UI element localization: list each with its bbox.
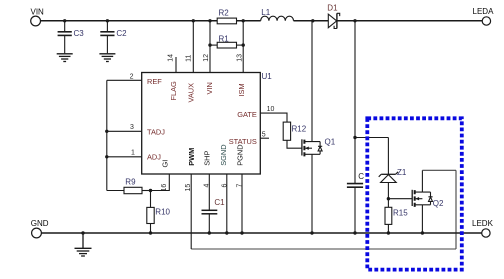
- resistor R15: [385, 199, 392, 233]
- node dot R1 left: [208, 43, 211, 46]
- node dot Q1 source/bus: [310, 231, 313, 234]
- node dot pin7/bus: [240, 231, 243, 234]
- pin 10 GATE wire: [260, 113, 287, 122]
- pin 2 REF stub: [107, 79, 142, 81]
- svg-text:U1: U1: [262, 72, 273, 81]
- wire output node vertical: [354, 21, 356, 184]
- node dot R1 right: [242, 43, 245, 46]
- wire rail segment 4 (D1 to LEDA): [337, 20, 482, 22]
- terminal LEDA: [482, 17, 490, 25]
- svg-text:Q1: Q1: [325, 137, 336, 146]
- transistor Q1 (N-MOSFET): [302, 139, 322, 156]
- pin 5 STATUS stub: [260, 137, 269, 139]
- ground symbol under C2: [99, 54, 115, 62]
- svg-text:SGND: SGND: [219, 144, 228, 165]
- svg-text:R12: R12: [292, 124, 307, 133]
- svg-text:2: 2: [130, 73, 134, 80]
- transistor Q2 (N-MOSFET): [412, 190, 432, 207]
- node dot C3/rail: [63, 19, 66, 22]
- zener Z1: [379, 172, 398, 199]
- wire branch to Z1: [355, 137, 388, 139]
- svg-text:3: 3: [130, 124, 134, 131]
- svg-text:10: 10: [267, 106, 275, 113]
- svg-text:TADJ: TADJ: [147, 127, 165, 136]
- capacitor C1: [202, 174, 218, 233]
- IC U1 body: [142, 73, 261, 175]
- svg-text:C2: C2: [116, 29, 127, 38]
- dimming circuit outline (blue dotted box): [367, 118, 462, 269]
- node dot Q2 source/bus: [421, 231, 424, 234]
- svg-text:14: 14: [168, 54, 175, 62]
- node dot Q1 drain/rail: [311, 19, 314, 22]
- capacitor C2: [100, 21, 114, 54]
- diode D1 (schottky): [328, 13, 339, 28]
- node dot C/bus: [353, 231, 356, 234]
- node dot output/branch: [353, 136, 356, 139]
- svg-text:Z1: Z1: [397, 168, 407, 177]
- svg-text:6: 6: [222, 184, 229, 188]
- svg-text:C1: C1: [214, 198, 225, 207]
- node dot TADJ: [105, 130, 108, 133]
- svg-text:R15: R15: [393, 209, 408, 218]
- node dot D1 out/rail: [353, 19, 356, 22]
- resistor R9: [107, 187, 151, 193]
- node dot ADJ: [105, 155, 108, 158]
- wire pin15 PWM vertical: [190, 174, 192, 249]
- wire rail segment 3 (L1 to D1): [294, 20, 329, 22]
- node dot ground symbol: [81, 231, 84, 234]
- terminal GND: [32, 228, 42, 238]
- wire Q2 gate: [388, 198, 412, 200]
- ground symbol on bus: [75, 233, 92, 256]
- svg-text:12: 12: [203, 54, 210, 62]
- svg-text:GND: GND: [31, 219, 49, 228]
- svg-text:11: 11: [186, 54, 193, 61]
- wire pin7: [241, 174, 243, 233]
- node dot C1/bus: [208, 231, 211, 234]
- svg-text:VIN: VIN: [205, 82, 214, 94]
- svg-text:REF: REF: [147, 77, 162, 86]
- wire pin16: [151, 174, 170, 191]
- wire VIN rail segment 1: [40, 20, 217, 22]
- svg-text:1: 1: [131, 150, 135, 157]
- svg-text:LEDK: LEDK: [472, 219, 494, 228]
- wire pin14 stub: [175, 57, 177, 73]
- svg-text:GI: GI: [161, 160, 170, 168]
- svg-text:VIN: VIN: [31, 7, 45, 16]
- node dot pin6/bus: [225, 231, 228, 234]
- resistor R12: [283, 122, 302, 148]
- wire Q2 source: [421, 205, 423, 233]
- node dot pin11/rail: [192, 19, 195, 22]
- wire Q1 source: [311, 154, 313, 233]
- wire Z1 cathode: [387, 138, 389, 175]
- svg-text:R1: R1: [219, 34, 230, 43]
- resistor R1: [210, 42, 243, 48]
- wire VIN rail segment 2 (R2 to L1): [237, 20, 261, 22]
- node dot pin12/rail: [208, 19, 211, 22]
- svg-text:PGND: PGND: [236, 144, 245, 165]
- wire pin6: [226, 174, 228, 233]
- node dot R10/bus: [149, 231, 152, 234]
- pin 3 TADJ stub: [107, 130, 142, 132]
- terminal LEDK: [482, 229, 490, 237]
- capacitor C: [347, 184, 363, 233]
- svg-text:ADJ: ADJ: [147, 153, 161, 162]
- node dot R9/R10/pin16: [149, 189, 152, 192]
- wire Q1 drain: [311, 21, 313, 142]
- wire pin11 vertical: [192, 21, 194, 73]
- svg-text:ISM: ISM: [237, 83, 246, 96]
- svg-text:L1: L1: [261, 8, 270, 17]
- wire Q2 drain up: [421, 170, 423, 192]
- ground symbol under C3: [57, 54, 73, 62]
- node dot C2/rail: [106, 19, 109, 22]
- svg-text:C: C: [358, 172, 364, 181]
- pin 1 ADJ stub: [107, 156, 142, 158]
- svg-text:D1: D1: [327, 4, 338, 13]
- wire pin13 vertical: [242, 21, 244, 73]
- svg-text:R9: R9: [125, 178, 136, 187]
- wire pin12 vertical: [209, 21, 211, 73]
- svg-text:R2: R2: [219, 8, 230, 17]
- svg-text:R10: R10: [155, 207, 170, 216]
- svg-text:Q2: Q2: [433, 199, 444, 208]
- node dot R15/bus: [387, 231, 390, 234]
- capacitor C3: [58, 21, 72, 54]
- wire left vertical (REF/TADJ/ADJ bus): [106, 80, 108, 190]
- svg-text:LEDA: LEDA: [473, 7, 495, 16]
- wire PWM return loop: [191, 170, 456, 249]
- wire ground bus: [41, 232, 482, 234]
- svg-text:FLAG: FLAG: [169, 81, 178, 101]
- svg-text:PWM: PWM: [187, 148, 196, 166]
- node dot R2 right/rail: [242, 19, 245, 22]
- svg-text:13: 13: [237, 54, 244, 62]
- svg-text:SHP: SHP: [203, 151, 212, 166]
- resistor R10: [147, 191, 154, 234]
- svg-text:C3: C3: [74, 29, 85, 38]
- inductor L1: [261, 16, 294, 21]
- svg-text:VAUX: VAUX: [186, 83, 195, 103]
- svg-text:5: 5: [262, 132, 266, 139]
- resistor R2: [217, 18, 236, 24]
- terminal VIN: [31, 16, 41, 26]
- svg-text:GATE: GATE: [237, 110, 257, 119]
- node dot Z1/R15/Q2 gate: [387, 197, 390, 200]
